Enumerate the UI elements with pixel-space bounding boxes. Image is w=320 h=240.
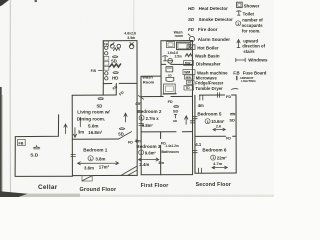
kitchen socket circles top (110, 43, 120, 49)
legend dishwasher (184, 61, 221, 67)
stairs up arrow (ground floor) (124, 113, 127, 122)
cellar outline wall (15, 115, 72, 177)
legend stairs direction (237, 38, 266, 54)
legend FB fuse board (233, 70, 267, 75)
legend shower (237, 2, 260, 8)
toilet symbol (washroom) (163, 56, 168, 61)
second floor top wall with door gap (199, 94, 236, 96)
paper scan crease left (9, 0, 11, 193)
shower cubicle plan (first floor) (164, 84, 176, 94)
bedroom6 divider wall (195, 135, 236, 137)
legend wash basin (185, 53, 220, 58)
fuse board pointer F.B (91, 69, 103, 73)
first floor left wall (140, 76, 142, 175)
ground floor top wall (72, 94, 116, 96)
bath tub (washroom) (177, 42, 191, 49)
smoke detector SD (cellar) (30, 145, 40, 158)
dimension tick line (living room) (79, 118, 81, 127)
occupancy circle 1 (bedroom 2) (139, 115, 144, 120)
window ticks top wall (second floor) (217, 93, 219, 98)
fuse board FB box (cellar) (18, 139, 26, 145)
dimension 4.7m arrows (bedroom 6) (212, 161, 227, 169)
legend windows (236, 58, 268, 63)
toilet plan shape (first floor) (166, 67, 173, 72)
kitchen bottom wall with door gap (103, 82, 137, 84)
second floor bottom wall (195, 172, 236, 174)
bedroom3 divider wall (141, 131, 192, 133)
first floor top-left wall (141, 75, 161, 77)
legend tumble dryer (184, 86, 223, 91)
scan bottom band (0, 195, 274, 197)
occupancy circle 1 (bedroom 5) (205, 119, 210, 124)
smoke detector SD (bedroom 5) (229, 113, 235, 122)
bedroom1 divider wall (72, 138, 118, 140)
smoke detector SD (kitchen) (111, 56, 118, 64)
scan notch top edge (35, 0, 37, 2)
kitchen wall appliance stack (105, 46, 108, 55)
smoke detector SD (bedroom 2) (173, 106, 179, 114)
scan dark strip left edge (0, 87, 2, 194)
occupancy circle 1 (bedroom 1) (88, 156, 93, 161)
stairs up arrow (first floor) (185, 116, 188, 125)
legend toilet (237, 11, 255, 17)
wash basin (washroom) (168, 58, 173, 63)
paper background (0, 0, 274, 197)
legend fridge freezer (186, 80, 223, 85)
window ticks left wall (ground floor) (71, 154, 76, 156)
entry step box (ground floor) (82, 176, 92, 181)
bathroom wall (first floor) (160, 132, 162, 175)
first floor bottom wall (141, 174, 192, 176)
shower cubicle (washroom) (166, 42, 174, 48)
dimension 2.6 arrows (bedroom 5) (213, 125, 225, 131)
occupancy circle 1 (bedroom 6) (211, 155, 216, 160)
stairs down arrow (ground floor) (73, 128, 76, 138)
window ticks left wall (first floor) (139, 123, 144, 125)
hall wall below kitchen (115, 84, 117, 96)
scan corner blob bottom-left (0, 191, 28, 197)
first floor right wall (191, 41, 193, 175)
first floor washroom walls (161, 41, 193, 65)
smoke detector SD (living room) (97, 98, 104, 109)
wash basin plan (first floor) (166, 77, 174, 81)
washroom column wall (160, 64, 162, 96)
shower column bottom wall (first floor) (163, 93, 176, 95)
legend microwave (185, 75, 218, 81)
legend wash machine (183, 70, 228, 76)
legend ambient lighting note (237, 76, 257, 83)
bedroom2 top divider wall (141, 95, 192, 97)
legend occupancy number (236, 18, 264, 34)
legend SD smoke detector (188, 17, 233, 22)
window ticks left wall (second floor) (193, 117, 198, 153)
kitchen top wall (103, 40, 137, 42)
dimension arrow line (bedroom 3) (139, 158, 159, 161)
scan noise overlay (0, 0, 1, 1)
occupancy circle 1 (bedroom 3) (139, 150, 144, 155)
dimension arrow line (bedroom 1) (78, 162, 119, 165)
second floor right wall (235, 95, 237, 173)
scan corner blob top-left (0, 0, 9, 6)
stairs up arrow (cellar) (64, 124, 67, 134)
second floor door jambs (bottom) (198, 168, 201, 173)
legend hot boiler (187, 45, 219, 51)
window diagonal mark left wall (first floor) (138, 96, 143, 100)
second floor left wall (194, 95, 196, 173)
kitchen pen squiggle (113, 48, 119, 51)
legend alarm sounder (188, 34, 230, 42)
pen tick and HD mark (first floor landing) (174, 114, 177, 118)
paper scan crease top center (133, 0, 135, 39)
smoke detector SD (near stairs) (118, 128, 125, 137)
pen mark below legend (232, 88, 238, 91)
legend HD heat detector (188, 6, 228, 11)
ground floor left wall (71, 95, 73, 176)
corner closet diagonals (ground floor) (121, 166, 137, 175)
bedroom1 door swing (119, 132, 132, 139)
kitchen left wall (102, 41, 104, 95)
cooker symbol circle-X top right (129, 42, 134, 48)
heat detector HD (kitchen) (112, 72, 118, 81)
ground floor bottom wall (72, 174, 137, 176)
hob bold scribble (kitchen) (110, 64, 121, 67)
legend FD fire door (188, 27, 218, 32)
second floor door jambs (top) (200, 95, 203, 100)
kitchen FB box (104, 41, 109, 46)
window ticks right wall (first floor) (190, 121, 195, 123)
ground floor right wall (136, 41, 138, 176)
